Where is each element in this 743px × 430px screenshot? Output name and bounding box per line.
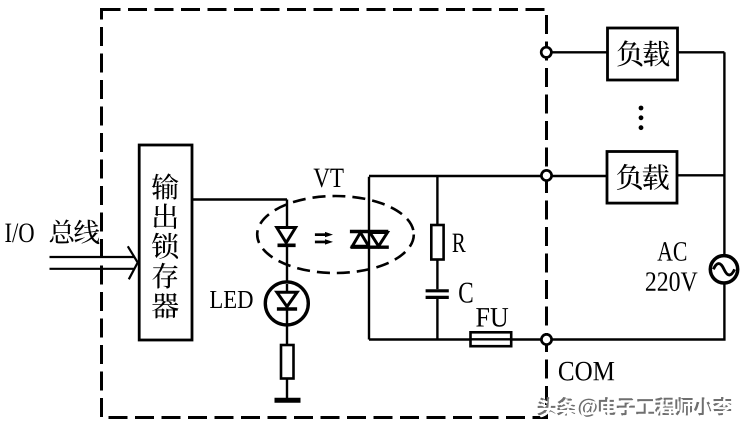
label FU (476, 308, 489, 326)
output terminal node 2 (541, 170, 551, 180)
top rail wire: triac to load 2 (369, 175, 607, 177)
output terminal node 1 (541, 47, 551, 57)
load box 2 (607, 152, 677, 204)
I/O bus double-line arrow (50, 246, 138, 279)
capacitor C (426, 291, 449, 298)
watermark 头条@电子工程师小李 (537, 397, 733, 419)
wire: LED to resistor (286, 323, 288, 345)
opto LED diode (emitter) (277, 228, 296, 246)
bottom rail wire (369, 284, 724, 339)
resistor R (431, 225, 443, 260)
PLC enclosure dashed border (102, 10, 547, 418)
label VT (314, 169, 330, 188)
triac VT output element (350, 232, 389, 248)
label COM (559, 362, 573, 381)
wire: opto LED anode lead (286, 200, 288, 228)
AC rail vertical wire (723, 52, 725, 254)
load 1 label 负载 (617, 40, 669, 66)
load box 1 (608, 28, 678, 80)
wire: load 2 to AC rail (677, 174, 724, 176)
wire: opto LED cathode to indicator LED (286, 245, 288, 282)
label C (459, 283, 472, 303)
snubber branch wire top (436, 176, 438, 225)
I/O bus label (5, 220, 99, 245)
load 2 label 负载 (617, 164, 669, 190)
wire: node 1 to load 1 (552, 51, 608, 53)
wire: R to C (436, 260, 438, 290)
wire: latch output to LED branch (191, 198, 287, 200)
resistor (LED current limiting) (281, 345, 294, 379)
wire: C to bottom rail (436, 299, 438, 340)
wire: resistor to ground (286, 379, 288, 399)
light emission arrows (315, 232, 333, 245)
ground (275, 398, 301, 403)
ellipsis dots between loads (639, 106, 644, 130)
triac branch vertical wire (368, 177, 370, 340)
output latch box (139, 145, 192, 340)
indicator LED circle (265, 282, 308, 325)
AC source symbol (710, 256, 737, 283)
label AC 220V (646, 242, 697, 291)
indicator LED diode symbol (277, 284, 297, 323)
label R (452, 234, 465, 252)
output latch label 输出锁存器 (152, 173, 179, 318)
optocoupler dashed ellipse VT (257, 196, 414, 273)
wire: load 1 to AC rail (678, 51, 725, 53)
COM terminal node (541, 334, 551, 344)
fuse FU (471, 332, 512, 346)
label LED (210, 291, 222, 308)
